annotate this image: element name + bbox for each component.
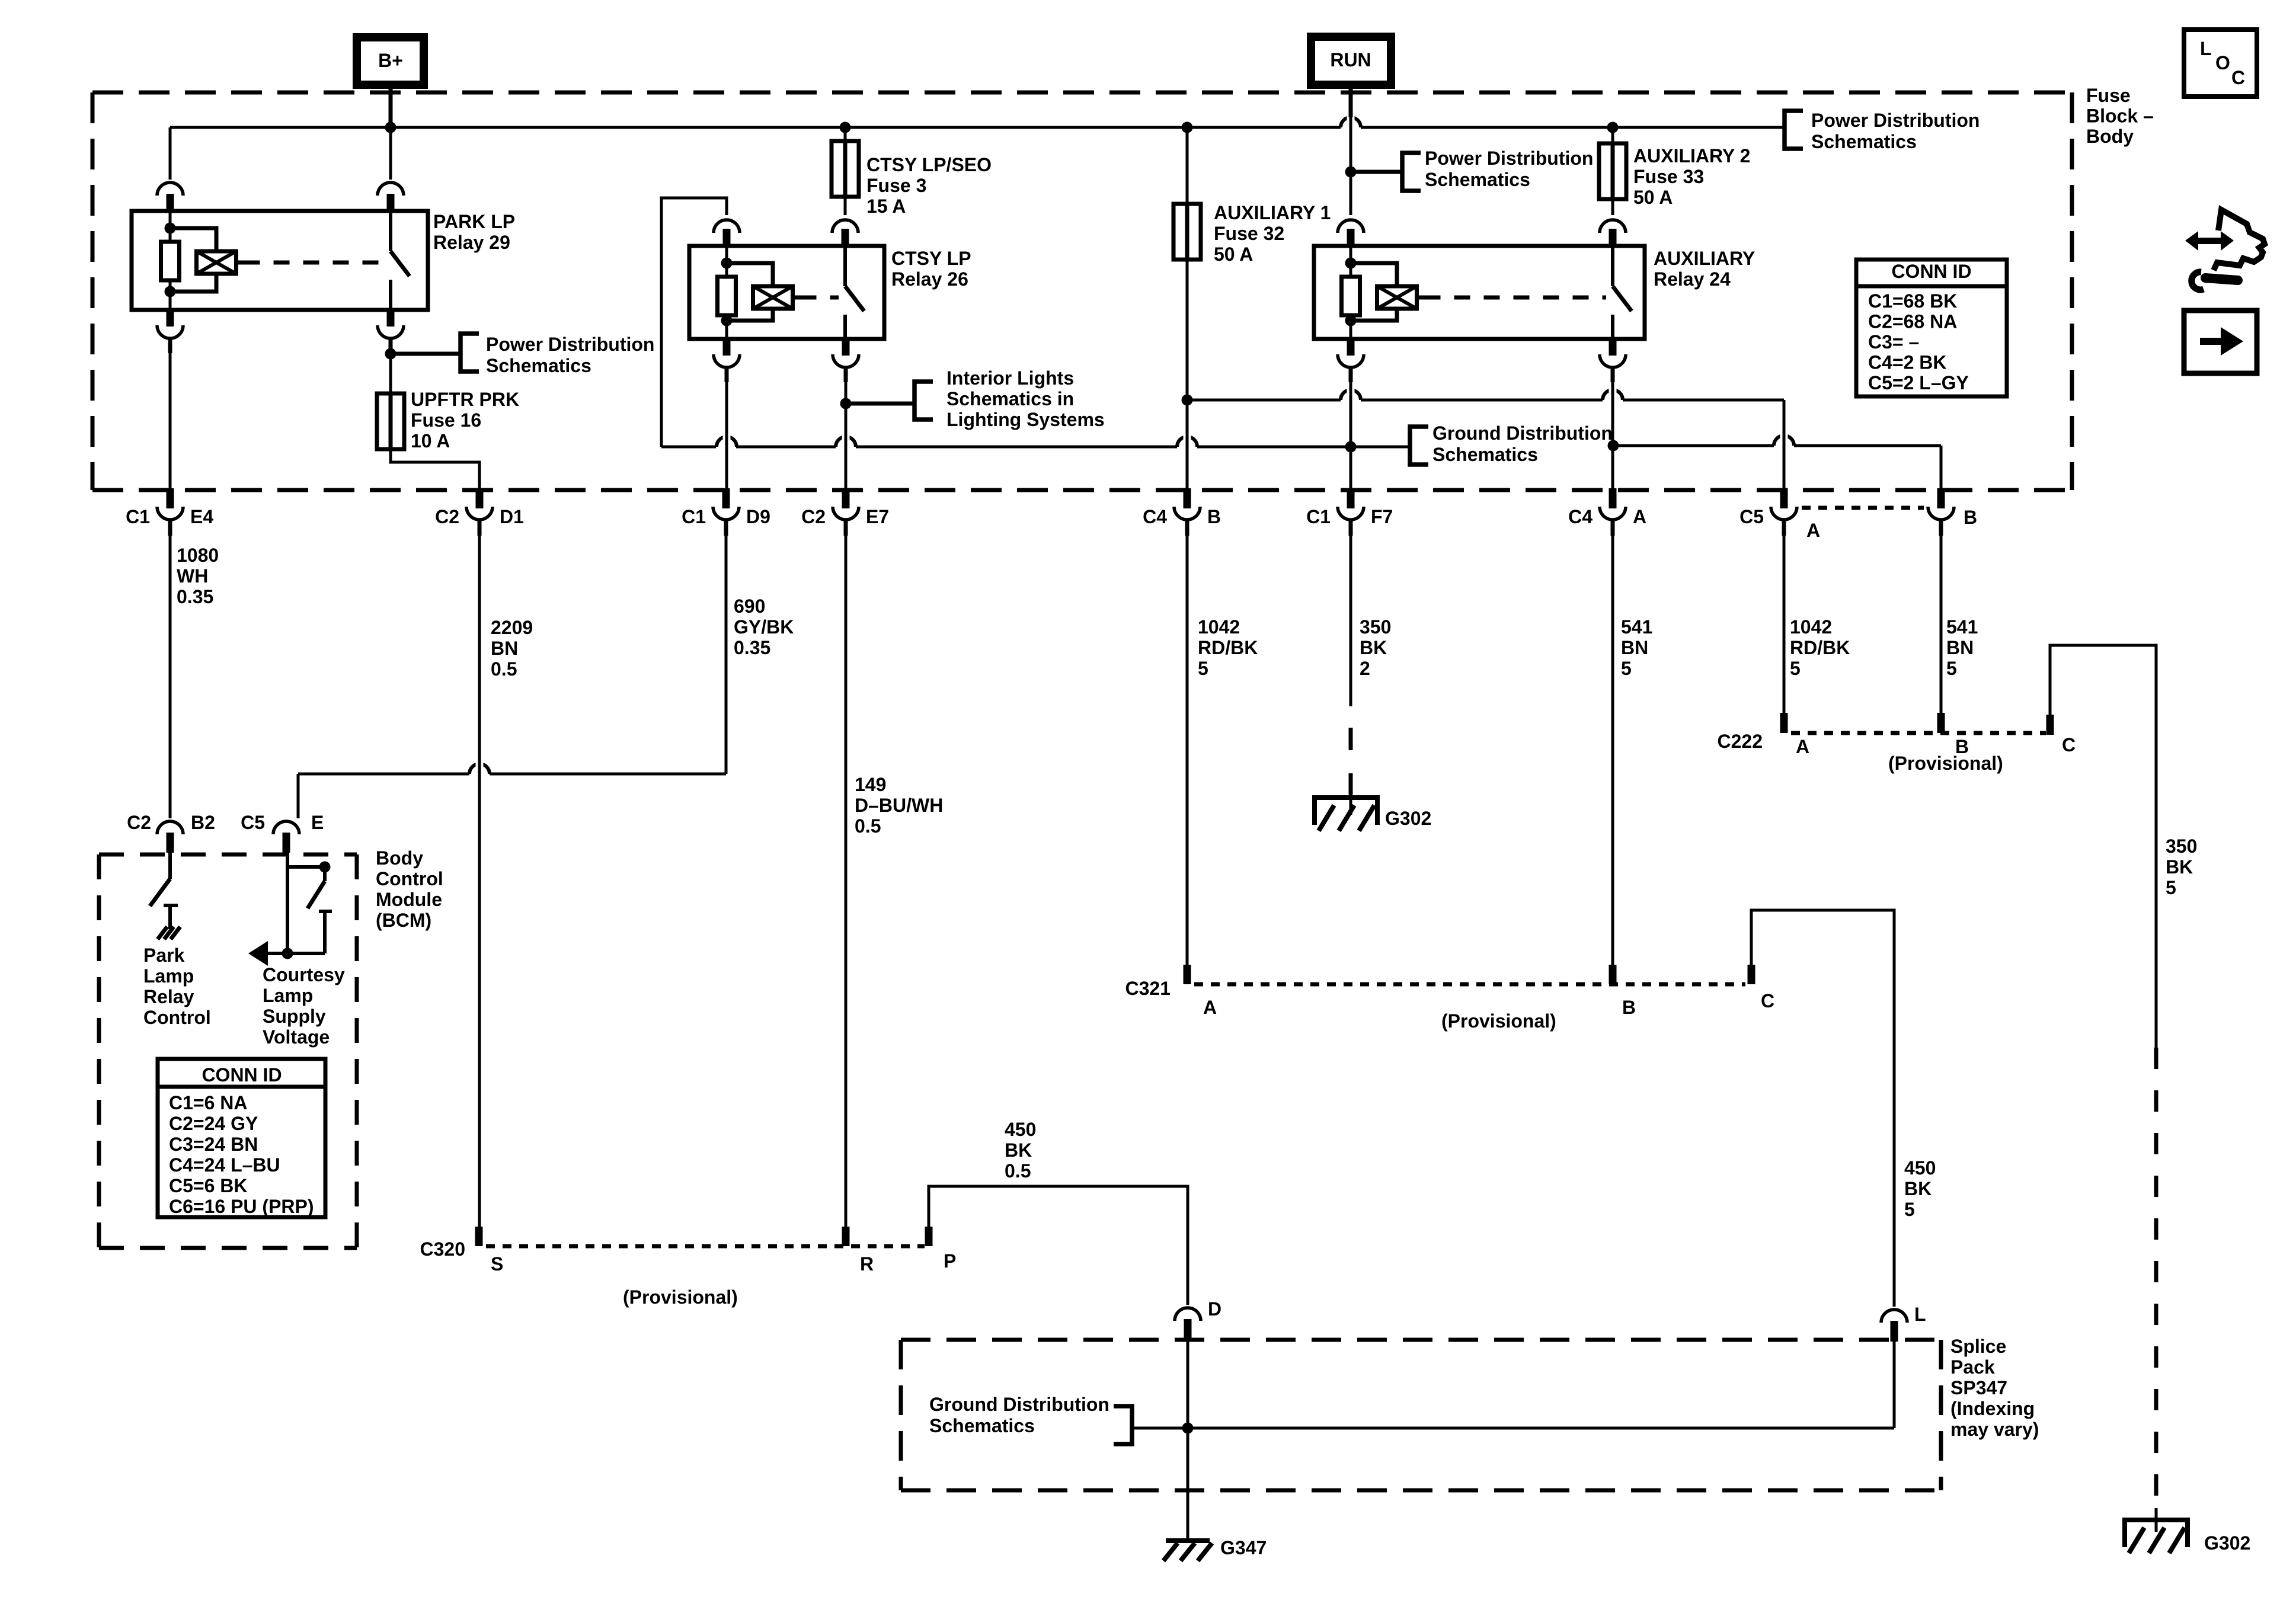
svg-text:(Provisional): (Provisional): [1888, 753, 2003, 774]
svg-text:BK: BK: [1005, 1140, 1032, 1161]
svg-text:2: 2: [1360, 658, 1370, 679]
svg-text:B2: B2: [191, 812, 215, 833]
svg-text:C1: C1: [126, 506, 150, 527]
svg-text:D–BU/WH: D–BU/WH: [855, 795, 943, 816]
svg-text:0.35: 0.35: [177, 586, 213, 607]
svg-text:Splice: Splice: [1950, 1336, 2006, 1357]
svg-text:C: C: [2231, 67, 2245, 88]
svg-text:5: 5: [1621, 658, 1632, 679]
svg-text:G347: G347: [1220, 1537, 1267, 1558]
svg-text:A: A: [1203, 997, 1217, 1018]
svg-text:C2: C2: [801, 506, 826, 527]
svg-text:BN: BN: [1946, 637, 1974, 658]
svg-text:450: 450: [1904, 1157, 1936, 1179]
svg-text:C: C: [1761, 990, 1774, 1012]
svg-text:C2=24 GY: C2=24 GY: [169, 1113, 258, 1134]
svg-text:C4: C4: [1568, 506, 1593, 527]
svg-text:RUN: RUN: [1330, 49, 1371, 71]
svg-text:C320: C320: [420, 1238, 466, 1260]
svg-text:BN: BN: [1621, 637, 1648, 658]
svg-text:D9: D9: [746, 506, 770, 527]
svg-text:50 A: 50 A: [1633, 187, 1673, 208]
svg-text:Schematics: Schematics: [1811, 131, 1917, 152]
svg-text:Fuse 33: Fuse 33: [1633, 166, 1704, 187]
svg-text:E4: E4: [190, 506, 213, 527]
svg-text:5: 5: [1904, 1199, 1915, 1220]
svg-text:AUXILIARY: AUXILIARY: [1654, 248, 1755, 269]
svg-text:Park: Park: [143, 945, 185, 966]
svg-text:C6=16 PU (PRP): C6=16 PU (PRP): [169, 1196, 314, 1217]
svg-text:Power Distribution: Power Distribution: [1425, 148, 1593, 169]
svg-text:Voltage: Voltage: [263, 1026, 330, 1048]
svg-text:UPFTR PRK: UPFTR PRK: [411, 389, 519, 410]
svg-text:541: 541: [1621, 616, 1652, 638]
svg-text:SP347: SP347: [1950, 1377, 2007, 1398]
svg-text:5: 5: [1198, 658, 1208, 679]
svg-text:450: 450: [1005, 1119, 1036, 1140]
svg-text:BK: BK: [1904, 1178, 1932, 1199]
svg-text:(Indexing: (Indexing: [1950, 1398, 2035, 1419]
svg-text:B+: B+: [378, 50, 403, 71]
svg-text:Lighting Systems: Lighting Systems: [946, 409, 1105, 430]
svg-text:690: 690: [734, 596, 765, 617]
svg-text:BN: BN: [491, 638, 518, 659]
svg-text:Fuse: Fuse: [2086, 85, 2131, 106]
svg-text:RD/BK: RD/BK: [1790, 637, 1850, 658]
svg-text:50 A: 50 A: [1214, 244, 1253, 265]
svg-text:Interior Lights: Interior Lights: [946, 367, 1074, 389]
svg-text:Control: Control: [143, 1007, 211, 1028]
svg-text:C1=6 NA: C1=6 NA: [169, 1092, 248, 1113]
svg-text:PARK LP: PARK LP: [433, 211, 515, 232]
svg-text:B: B: [1207, 506, 1221, 527]
svg-text:(Provisional): (Provisional): [623, 1286, 738, 1308]
svg-text:Relay 26: Relay 26: [891, 268, 968, 290]
svg-text:350: 350: [1360, 616, 1391, 638]
svg-text:(Provisional): (Provisional): [1441, 1010, 1556, 1032]
svg-text:541: 541: [1946, 616, 1978, 638]
svg-text:S: S: [491, 1253, 503, 1275]
svg-text:C1=68 BK: C1=68 BK: [1868, 290, 1957, 312]
svg-text:Relay 29: Relay 29: [433, 232, 510, 253]
svg-text:0.5: 0.5: [1005, 1160, 1031, 1182]
svg-text:Module: Module: [376, 889, 442, 910]
svg-text:C4=2 BK: C4=2 BK: [1868, 352, 1947, 373]
svg-text:10 A: 10 A: [411, 430, 450, 452]
svg-text:1042: 1042: [1790, 616, 1832, 638]
svg-text:Control: Control: [376, 868, 443, 889]
svg-text:AUXILIARY 1: AUXILIARY 1: [1214, 202, 1331, 223]
svg-text:GY/BK: GY/BK: [734, 616, 794, 638]
svg-text:5: 5: [1790, 658, 1801, 679]
svg-text:Pack: Pack: [1950, 1356, 1995, 1378]
svg-text:Power Distribution: Power Distribution: [486, 334, 654, 355]
svg-text:AUXILIARY 2: AUXILIARY 2: [1633, 145, 1750, 167]
svg-text:P: P: [944, 1250, 956, 1272]
svg-text:C2: C2: [127, 812, 151, 833]
svg-text:G302: G302: [2204, 1532, 2250, 1554]
svg-text:Schematics: Schematics: [1425, 169, 1530, 190]
svg-text:C4=24 L–BU: C4=24 L–BU: [169, 1154, 280, 1176]
svg-text:F7: F7: [1371, 506, 1393, 527]
svg-text:Power Distribution: Power Distribution: [1811, 110, 1980, 131]
svg-text:C2: C2: [435, 506, 459, 527]
svg-text:0.35: 0.35: [734, 637, 770, 658]
svg-text:B: B: [1964, 507, 1977, 528]
svg-text:Schematics: Schematics: [1432, 444, 1538, 465]
svg-text:Ground Distribution: Ground Distribution: [929, 1394, 1109, 1415]
svg-text:Supply: Supply: [263, 1006, 326, 1027]
svg-text:1080: 1080: [177, 545, 219, 566]
svg-text:350: 350: [2166, 836, 2197, 857]
svg-text:0.5: 0.5: [855, 815, 881, 837]
svg-text:149: 149: [855, 774, 886, 795]
svg-text:1042: 1042: [1198, 616, 1240, 638]
svg-text:Block –: Block –: [2086, 105, 2154, 127]
svg-text:RD/BK: RD/BK: [1198, 637, 1258, 658]
svg-text:Fuse 3: Fuse 3: [866, 175, 926, 196]
svg-text:Schematics in: Schematics in: [946, 388, 1074, 409]
svg-text:CONN ID: CONN ID: [1891, 261, 1971, 282]
svg-text:(BCM): (BCM): [376, 910, 431, 931]
svg-text:WH: WH: [177, 565, 208, 587]
svg-text:Schematics: Schematics: [929, 1415, 1035, 1436]
svg-text:C: C: [2062, 734, 2076, 756]
svg-text:Lamp: Lamp: [263, 985, 313, 1006]
svg-text:A: A: [1633, 506, 1646, 527]
svg-text:L: L: [1914, 1304, 1926, 1325]
svg-text:Fuse 32: Fuse 32: [1214, 223, 1284, 244]
svg-text:C4: C4: [1143, 506, 1167, 527]
svg-text:C3=24 BN: C3=24 BN: [169, 1134, 258, 1155]
svg-text:C1: C1: [1306, 506, 1331, 527]
svg-text:CTSY LP: CTSY LP: [891, 248, 971, 269]
svg-text:Ground Distribution: Ground Distribution: [1432, 422, 1613, 444]
svg-text:BK: BK: [2166, 856, 2193, 878]
svg-text:C5=6 BK: C5=6 BK: [169, 1175, 248, 1196]
svg-text:Courtesy: Courtesy: [263, 964, 345, 985]
svg-text:E: E: [311, 812, 324, 833]
svg-text:Body: Body: [2086, 126, 2134, 147]
svg-text:B: B: [1622, 997, 1636, 1018]
svg-text:2209: 2209: [491, 617, 533, 638]
svg-text:G302: G302: [1385, 808, 1431, 829]
svg-text:A: A: [1796, 736, 1809, 757]
svg-text:Relay 24: Relay 24: [1654, 268, 1731, 290]
svg-text:C1: C1: [682, 506, 706, 527]
svg-text:Lamp: Lamp: [143, 965, 194, 987]
svg-text:C321: C321: [1125, 978, 1171, 999]
svg-text:15 A: 15 A: [866, 196, 906, 217]
svg-text:A: A: [1806, 520, 1820, 541]
svg-text:C5=2 L–GY: C5=2 L–GY: [1868, 372, 1969, 393]
svg-text:R: R: [860, 1253, 874, 1275]
svg-text:E7: E7: [866, 506, 889, 527]
svg-text:C3= –: C3= –: [1868, 331, 1919, 353]
svg-text:may vary): may vary): [1950, 1419, 2039, 1440]
svg-text:C222: C222: [1718, 731, 1763, 752]
svg-text:O: O: [2215, 52, 2230, 73]
svg-text:5: 5: [2166, 877, 2176, 898]
svg-text:Fuse 16: Fuse 16: [411, 409, 481, 431]
svg-text:D: D: [1208, 1298, 1221, 1320]
svg-text:Relay: Relay: [143, 986, 194, 1007]
svg-text:C5: C5: [1739, 506, 1764, 527]
svg-text:C5: C5: [241, 812, 265, 833]
svg-text:CTSY LP/SEO: CTSY LP/SEO: [866, 154, 992, 175]
svg-text:L: L: [2200, 38, 2212, 59]
svg-text:D1: D1: [500, 506, 524, 527]
svg-text:CONN ID: CONN ID: [202, 1064, 282, 1086]
svg-text:5: 5: [1946, 658, 1957, 679]
svg-text:BK: BK: [1360, 637, 1387, 658]
svg-text:0.5: 0.5: [491, 658, 517, 680]
svg-text:Schematics: Schematics: [486, 355, 591, 376]
svg-text:C2=68 NA: C2=68 NA: [1868, 311, 1957, 332]
svg-text:Body: Body: [376, 847, 423, 869]
